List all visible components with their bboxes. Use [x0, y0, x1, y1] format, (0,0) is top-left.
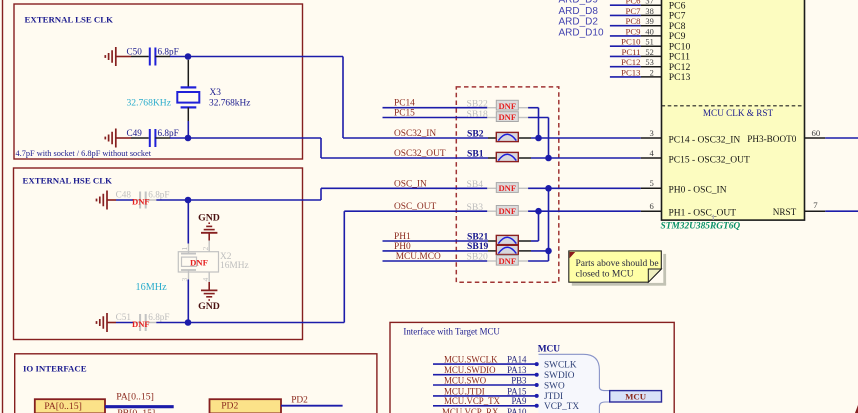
- pin 53 (PC12): [641, 58, 691, 73]
- svg-text:51: 51: [645, 38, 653, 47]
- pin 6 (PH1 - OSC_OUT): [641, 201, 736, 219]
- pin 51 (PC10): [641, 38, 691, 53]
- solder bridge SB18 (DNF): [467, 109, 519, 122]
- dashed DNF/SB region box: [456, 87, 559, 282]
- svg-text:PC12: PC12: [621, 57, 640, 67]
- solder bridge SB21: [467, 231, 518, 244]
- wire X2 pin3 down to C51 node: [187, 280, 189, 323]
- svg-text:NRST: NRST: [773, 207, 797, 217]
- ground (C48): [97, 191, 108, 210]
- wire C48 to node: [156, 199, 188, 201]
- svg-text:PC8: PC8: [626, 16, 642, 26]
- svg-text:IO INTERFACE: IO INTERFACE: [23, 364, 87, 374]
- svg-text:VCP_TX: VCP_TX: [544, 402, 579, 412]
- wire net PC13: [610, 76, 641, 78]
- wire net OSC_IN: [394, 187, 487, 189]
- svg-text:DNF: DNF: [190, 257, 208, 267]
- svg-text:MCU.JTDI: MCU.JTDI: [444, 386, 485, 396]
- wire PC15 elbow down to OSC32_OUT node: [548, 118, 550, 159]
- wire PC14 elbow down to OSC32_IN node: [538, 108, 540, 138]
- svg-text:PB[0..15]: PB[0..15]: [117, 408, 155, 413]
- wire OSC_OUT node down to PH1 elbow: [538, 211, 540, 241]
- wire net MCU.JTDI: [433, 395, 537, 397]
- svg-text:PC14: PC14: [394, 99, 415, 109]
- svg-text:PA14: PA14: [507, 355, 527, 365]
- svg-text:38: 38: [645, 7, 653, 16]
- svg-text:16MHz: 16MHz: [220, 261, 249, 271]
- wire C50 to node: [155, 56, 170, 58]
- svg-text:6.8pF: 6.8pF: [148, 190, 169, 200]
- capacitor C49 6.8pF: [127, 128, 179, 147]
- wire node down to X2 pin1: [187, 200, 189, 244]
- svg-text:SB1: SB1: [467, 148, 484, 159]
- svg-text:MCU: MCU: [625, 392, 647, 402]
- pin 5 (PH0 - OSC_IN): [641, 178, 727, 196]
- svg-text:C49: C49: [127, 128, 143, 138]
- wire net PC6: [610, 4, 641, 6]
- svg-text:6.8pF: 6.8pF: [158, 128, 179, 138]
- svg-text:ARD_D8: ARD_D8: [559, 6, 599, 17]
- pin 52 (PC11): [641, 48, 690, 63]
- svg-text:SB22: SB22: [467, 99, 489, 110]
- wire C49 to node: [155, 137, 170, 139]
- svg-text:PC11: PC11: [622, 47, 641, 57]
- svg-text:PA9: PA9: [512, 396, 528, 406]
- svg-text:PD2: PD2: [291, 395, 308, 405]
- svg-text:OSC32_OUT: OSC32_OUT: [394, 149, 446, 159]
- wire ground to C50: [116, 56, 131, 58]
- svg-text:Parts above should be: Parts above should be: [576, 259, 659, 269]
- wire net MCU.VCP_TX: [433, 405, 537, 407]
- wire net MCU.SWO: [433, 384, 537, 386]
- svg-text:2: 2: [650, 68, 654, 77]
- wire net PC14: [383, 107, 488, 109]
- wire net PC10: [610, 45, 641, 47]
- svg-text:32.768kHz: 32.768kHz: [209, 99, 250, 109]
- hierarchical port PD2: [210, 399, 282, 413]
- node junction C49/X3/OSC32_OUT: [185, 135, 192, 142]
- svg-text:PC7: PC7: [626, 6, 642, 16]
- svg-text:PC15 - OSC32_OUT: PC15 - OSC32_OUT: [669, 155, 750, 165]
- svg-text:PA[0..15]: PA[0..15]: [44, 401, 82, 412]
- svg-text:7: 7: [813, 200, 818, 210]
- wire ground to C48: [107, 199, 116, 201]
- svg-text:DNF: DNF: [498, 112, 516, 122]
- wire net PC12: [610, 66, 641, 68]
- node junction OSC32_IN: [535, 135, 542, 142]
- wire net PC8: [610, 25, 641, 27]
- net label MCU.SWO PB3: [444, 375, 527, 385]
- svg-text:PC14 - OSC32_IN: PC14 - OSC32_IN: [669, 135, 741, 145]
- svg-text:5: 5: [650, 178, 654, 188]
- svg-text:SB4: SB4: [467, 179, 484, 190]
- pin 2 (PC13): [641, 68, 691, 83]
- capacitor C48 6.8pF (DNF): [116, 190, 170, 209]
- solder bridge SB19: [467, 241, 518, 254]
- wire net MCU.SWDIO: [433, 374, 537, 376]
- svg-text:OSC_OUT: OSC_OUT: [394, 202, 436, 212]
- svg-text:SWDIO: SWDIO: [544, 371, 575, 381]
- note: Parts above should be closed to MCU: [569, 251, 666, 286]
- svg-text:EXTERNAL HSE CLK: EXTERNAL HSE CLK: [23, 175, 113, 185]
- svg-text:SB19: SB19: [467, 241, 489, 252]
- svg-text:DNF: DNF: [498, 101, 516, 111]
- EXTERNAL LSE CLK group box: [14, 4, 303, 159]
- svg-text:MCU.SWO: MCU.SWO: [444, 375, 487, 385]
- svg-text:1: 1: [180, 247, 189, 251]
- svg-text:4.7pF with socket / 6.8pF with: 4.7pF with socket / 6.8pF without socket: [16, 149, 152, 158]
- net label MCU.VCP_RX PA10: [442, 407, 527, 413]
- svg-text:PA10: PA10: [507, 407, 527, 413]
- pin 3 (PC14 - OSC32_IN): [641, 128, 741, 146]
- capacitor C50 6.8pF: [127, 46, 179, 65]
- svg-text:PC15: PC15: [394, 109, 415, 119]
- svg-text:GND: GND: [198, 301, 220, 312]
- ground (C51): [97, 313, 108, 332]
- svg-text:SWCLK: SWCLK: [544, 360, 577, 370]
- wire node to elbow OSC32_IN: [188, 56, 343, 58]
- MCU section separator (dashed): [662, 105, 805, 107]
- wire net PC11: [610, 55, 641, 57]
- IO INTERFACE group box: [15, 354, 377, 413]
- node junction OSC_OUT: [535, 208, 542, 215]
- svg-text:PH0 - OSC_IN: PH0 - OSC_IN: [669, 186, 727, 196]
- pin 60 (PH3-BOOT0): [747, 128, 825, 144]
- svg-text:MCU.MCO: MCU.MCO: [396, 252, 441, 262]
- svg-text:PC10: PC10: [621, 37, 641, 47]
- svg-text:4: 4: [650, 148, 655, 158]
- svg-text:53: 53: [645, 58, 653, 67]
- svg-text:3: 3: [650, 128, 654, 138]
- ground GND above X2 pin2: [198, 213, 220, 241]
- svg-text:ARD_D2: ARD_D2: [559, 17, 599, 28]
- svg-text:PB3: PB3: [511, 375, 527, 385]
- svg-text:52: 52: [645, 48, 653, 57]
- harness entry SWO: [535, 381, 565, 391]
- svg-text:PC13: PC13: [621, 67, 640, 77]
- harness entry SWCLK: [535, 360, 577, 370]
- svg-text:MCU.SWCLK: MCU.SWCLK: [444, 355, 498, 365]
- svg-text:C48: C48: [116, 190, 132, 200]
- solder bridge SB4 (DNF): [467, 179, 519, 193]
- wire ground to C51: [107, 322, 116, 324]
- Interface with Target MCU group box: [390, 322, 674, 413]
- svg-text:16MHz: 16MHz: [136, 282, 168, 293]
- svg-text:37: 37: [645, 0, 653, 6]
- harness entry VCP_TX: [535, 402, 580, 412]
- wire net PH1: [383, 240, 489, 242]
- svg-text:SB18: SB18: [467, 109, 489, 120]
- svg-text:PA15: PA15: [507, 386, 527, 396]
- node junction PH0: [545, 248, 552, 255]
- pin 37 (PC6): [641, 0, 686, 11]
- sheet corner mark bottom-right: [855, 405, 858, 413]
- MCU U1 STM32U385RGT6Q body: [662, 0, 805, 220]
- svg-text:GND: GND: [198, 213, 220, 224]
- svg-text:PH1 - OSC_OUT: PH1 - OSC_OUT: [669, 209, 737, 219]
- wire NRST: [825, 210, 858, 212]
- ground (C50): [105, 47, 116, 66]
- node junction C51/X2/OSC_OUT: [185, 319, 192, 326]
- svg-text:SB2: SB2: [467, 128, 484, 139]
- wire net PH0: [383, 250, 489, 252]
- ground GND below X2 pin4: [198, 282, 220, 312]
- crystal X2 16MHz (DNF): [178, 241, 248, 283]
- svg-text:EXTERNAL LSE CLK: EXTERNAL LSE CLK: [25, 15, 114, 25]
- svg-text:ARD_D10: ARD_D10: [559, 27, 604, 38]
- wire node to elbow OSC32_OUT: [188, 137, 321, 139]
- pin 7 (NRST): [773, 200, 826, 217]
- svg-text:C50: C50: [127, 46, 143, 56]
- svg-text:OSC32_IN: OSC32_IN: [394, 129, 436, 139]
- svg-text:6.8pF: 6.8pF: [148, 312, 169, 322]
- wire net OSC32_OUT: [394, 157, 488, 159]
- net label MCU.VCP_TX PA9: [444, 396, 527, 406]
- wire net MCU.MCO: [383, 260, 488, 262]
- svg-text:PD2: PD2: [221, 401, 238, 412]
- harness entry JTDI: [535, 392, 563, 402]
- wire node to elbow OSC_IN: [188, 199, 321, 201]
- svg-text:STM32U385RGT6Q: STM32U385RGT6Q: [661, 222, 741, 232]
- bus PA[0..15]: [105, 405, 174, 408]
- svg-text:PA13: PA13: [507, 365, 527, 375]
- svg-text:closed to MCU: closed to MCU: [576, 270, 634, 280]
- svg-text:PH0: PH0: [394, 242, 411, 252]
- wire PH3-BOOT0: [825, 137, 858, 139]
- svg-text:MCU.VCP_TX: MCU.VCP_TX: [444, 396, 501, 406]
- solder bridge SB22 (DNF): [467, 99, 519, 111]
- wire node to elbow OSC_OUT: [188, 322, 344, 324]
- solder bridge SB20 (DNF): [467, 252, 519, 266]
- net label MCU.SWCLK PA14: [444, 355, 527, 365]
- svg-text:DNF: DNF: [498, 183, 516, 193]
- svg-text:PC9: PC9: [626, 26, 641, 36]
- pin 38 (PC7): [641, 7, 686, 22]
- svg-text:PA[0..15]: PA[0..15]: [116, 391, 154, 402]
- svg-text:C51: C51: [116, 312, 132, 322]
- svg-text:MCU.SWDIO: MCU.SWDIO: [444, 365, 496, 375]
- EXTERNAL HSE CLK group box: [14, 168, 303, 340]
- svg-text:OSC_IN: OSC_IN: [394, 179, 427, 189]
- svg-text:MCU.VCP_RX: MCU.VCP_RX: [442, 407, 499, 413]
- svg-text:6: 6: [650, 201, 655, 211]
- wire OSC_IN node down to PH0 node: [548, 188, 550, 261]
- harness entry SWDIO: [535, 371, 575, 381]
- svg-text:PC6: PC6: [626, 0, 642, 6]
- svg-text:SB20: SB20: [467, 252, 489, 263]
- node junction OSC_IN: [545, 185, 552, 192]
- wire net PC7: [610, 14, 641, 16]
- svg-text:DNF: DNF: [132, 196, 150, 206]
- node junction C48/X2/OSC_IN: [185, 197, 192, 204]
- wire ground to C49: [116, 137, 131, 139]
- svg-text:SWO: SWO: [544, 381, 565, 391]
- hierarchical port PA[0..15]: [35, 399, 105, 413]
- svg-text:PC13: PC13: [669, 72, 691, 83]
- svg-text:MCU: MCU: [538, 345, 561, 355]
- svg-text:DNF: DNF: [498, 256, 516, 266]
- pin 4 (PC15 - OSC32_OUT): [641, 148, 750, 166]
- svg-text:X3: X3: [210, 88, 222, 98]
- wire net OSC_OUT: [394, 210, 487, 212]
- wire net MCU.SWCLK: [433, 363, 537, 365]
- svg-text:32.768KHz: 32.768KHz: [127, 98, 172, 109]
- svg-text:PH3-BOOT0: PH3-BOOT0: [747, 134, 796, 144]
- net label MCU.SWDIO PA13: [444, 365, 527, 375]
- svg-text:60: 60: [812, 128, 821, 138]
- svg-text:PH1: PH1: [394, 232, 411, 242]
- wire X3 to C49 node: [187, 121, 189, 138]
- wire net PC15: [383, 117, 488, 119]
- harness MCU bundle: [539, 354, 610, 413]
- solder bridge SB3 (DNF): [467, 202, 519, 216]
- capacitor C51 6.8pF (DNF): [116, 312, 170, 331]
- svg-text:DNF: DNF: [132, 319, 150, 329]
- svg-text:2: 2: [201, 247, 210, 251]
- wire C51 to node: [156, 322, 188, 324]
- svg-text:4: 4: [201, 278, 210, 282]
- ground (C49): [105, 129, 116, 148]
- node junction OSC32_OUT: [545, 155, 552, 162]
- wire net PC9: [610, 35, 641, 37]
- svg-text:JTDI: JTDI: [544, 392, 563, 402]
- svg-text:6.8pF: 6.8pF: [158, 46, 179, 56]
- svg-text:Interface with Target MCU: Interface with Target MCU: [403, 326, 500, 336]
- node junction C50/X3/OSC32_IN: [185, 53, 192, 60]
- sheet border left edge: [2, 0, 4, 413]
- MCU bottom stub (gray): [712, 215, 714, 220]
- svg-text:40: 40: [645, 27, 653, 36]
- svg-text:ARD_D9: ARD_D9: [559, 0, 599, 6]
- crystal X3 32.768kHz: [177, 60, 250, 121]
- pin 40 (PC9): [641, 27, 686, 42]
- pin 39 (PC8): [641, 17, 686, 32]
- svg-text:SB3: SB3: [467, 202, 484, 213]
- svg-text:MCU CLK & RST: MCU CLK & RST: [703, 108, 774, 118]
- sheet symbol MCU: [610, 391, 662, 402]
- solder bridge SB2: [467, 128, 518, 141]
- wire net OSC32_IN: [394, 137, 488, 139]
- wire PD2: [281, 405, 343, 407]
- solder bridge SB1: [467, 148, 518, 161]
- svg-text:39: 39: [645, 17, 653, 26]
- net label MCU.JTDI PA15: [444, 386, 527, 396]
- svg-text:DNF: DNF: [498, 206, 516, 216]
